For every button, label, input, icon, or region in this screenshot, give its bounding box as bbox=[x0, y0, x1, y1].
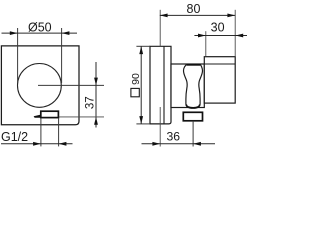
outlet slot bbox=[41, 111, 59, 117]
dim Ø50: extension line right bbox=[61, 28, 63, 83]
dim 37: top arrow bbox=[94, 78, 98, 86]
side view: holder front block bbox=[204, 57, 235, 103]
dim Ø50: right arrow bbox=[62, 31, 70, 35]
dim Ø50: dimension line bbox=[2, 32, 78, 34]
svg-text:G1/2: G1/2 bbox=[1, 130, 28, 144]
dim 80: dimension line bbox=[160, 14, 235, 16]
horizontal centerline bbox=[38, 84, 104, 86]
dim 36: left arrow bbox=[152, 142, 160, 146]
black bar left of slot bbox=[34, 115, 42, 118]
square cover plate (front view) bbox=[1, 46, 79, 125]
handle cap top thick line bbox=[187, 64, 200, 66]
svg-text:36: 36 bbox=[167, 130, 181, 144]
dim 30: right arrow bbox=[235, 34, 243, 38]
dim G1/2: right arrow bbox=[59, 142, 67, 146]
dim 80: left extension line bbox=[159, 10, 161, 47]
side view: hand shower handle bbox=[184, 65, 203, 109]
dim Ø50: extension line left bbox=[17, 28, 19, 83]
dim 80/30: right extension line bbox=[234, 10, 236, 57]
dim square90: bottom arrow bbox=[139, 116, 143, 124]
side view: holder step line bbox=[204, 63, 235, 65]
svg-text:30: 30 bbox=[211, 21, 225, 35]
dim 36: dimension line bbox=[142, 143, 216, 145]
dim 37: bottom extension line bbox=[59, 116, 104, 118]
dim square90: square symbol bbox=[131, 88, 139, 96]
side view: plate front face line bbox=[163, 46, 165, 124]
dim square90: top arrow bbox=[139, 46, 143, 54]
dim 37: dimension line vertical bbox=[95, 62, 97, 128]
svg-text:90: 90 bbox=[130, 73, 142, 85]
dim G1/2: left arrow bbox=[33, 142, 41, 146]
dim 37: bottom arrow bbox=[94, 117, 98, 125]
handle bowl bottom thick bbox=[186, 104, 199, 107]
dim G1/2: left extension line bbox=[40, 118, 42, 146]
svg-text:Ø50: Ø50 bbox=[28, 21, 52, 35]
side view: hose nut bbox=[183, 112, 202, 121]
dim G1/2: dimension line bbox=[1, 143, 73, 145]
side view: plate top edge extension to dim bbox=[136, 45, 150, 47]
dim 30: left extension line bbox=[205, 31, 207, 56]
dim G1/2: right extension line bbox=[58, 118, 60, 146]
dim Ø50: left arrow bbox=[10, 31, 18, 35]
dim 80: right arrow bbox=[227, 14, 235, 18]
side view: plate bottom edge extension to dim bbox=[136, 123, 150, 125]
dim square90: dimension line bbox=[140, 46, 142, 124]
side view: wall plate outer bbox=[150, 46, 171, 124]
dim 36: left extension line bbox=[159, 107, 161, 147]
svg-text:80: 80 bbox=[187, 2, 201, 16]
dim 36: right arrow bbox=[193, 142, 201, 146]
side view: body block bbox=[171, 64, 204, 108]
dim 36: right extension line / hose axis bbox=[192, 121, 194, 147]
dim 30: left arrow bbox=[198, 34, 206, 38]
dim 30: dimension line bbox=[194, 35, 247, 37]
dim 80: left arrow bbox=[160, 14, 168, 18]
circle Ø50 (front view) bbox=[18, 64, 62, 108]
svg-text:37: 37 bbox=[84, 96, 96, 109]
